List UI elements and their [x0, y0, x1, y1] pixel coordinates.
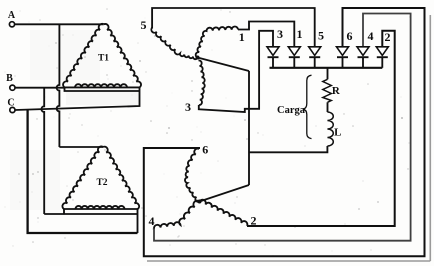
diode D2	[376, 47, 388, 56]
wire neutral N1 diagonal	[198, 58, 250, 72]
wire under T1 base	[65, 87, 140, 91]
wire A drop horizontal	[59, 146, 103, 148]
diode D6	[337, 47, 349, 56]
diode D3	[267, 47, 279, 56]
wire winding1 to diode1	[238, 22, 294, 47]
cathode bus	[270, 67, 383, 69]
inductor L	[327, 112, 333, 146]
wire winding6 loop to diode6	[144, 8, 425, 256]
wire A drop to T2 apex	[57, 24, 60, 147]
svg-text:5: 5	[318, 29, 324, 43]
wire B drop	[41, 88, 44, 214]
terminal B	[10, 85, 15, 90]
winding 4 coil	[154, 201, 199, 229]
wire under T2 base	[63, 209, 65, 214]
svg-text:5: 5	[141, 18, 147, 32]
wire winding5 to diode5	[152, 8, 315, 47]
svg-text:6: 6	[202, 143, 208, 157]
terminal C	[10, 107, 15, 112]
svg-text:R: R	[332, 85, 341, 97]
transformer T1 base winding	[75, 84, 127, 87]
svg-text:L: L	[334, 127, 341, 139]
wire C sloped to T1 right corner	[15, 87, 140, 110]
svg-text:B: B	[6, 73, 13, 84]
winding 1 coil	[196, 27, 238, 58]
transformer T2 right winding	[103, 147, 139, 209]
svg-text:3: 3	[185, 100, 191, 114]
svg-text:1: 1	[297, 27, 303, 41]
wire winding4 loop to diode4	[154, 14, 411, 241]
svg-text:6: 6	[347, 29, 353, 43]
svg-text:2: 2	[385, 30, 391, 44]
transformer T1 right winding	[104, 24, 141, 88]
wire T2 right corner down	[137, 209, 139, 233]
wire R to L	[327, 102, 329, 112]
svg-text:1: 1	[239, 30, 245, 44]
svg-text:Carga: Carga	[277, 105, 306, 116]
node N2 star2 center	[198, 200, 202, 204]
wire A to T1 apex	[15, 23, 104, 25]
svg-text:4: 4	[368, 29, 374, 43]
wire C drop around T2	[28, 110, 138, 233]
svg-text:4: 4	[149, 214, 155, 228]
svg-text:T1: T1	[98, 54, 109, 64]
wire winding3 to diode3	[199, 31, 273, 112]
transformer T2 left winding	[62, 146, 103, 209]
svg-text:2: 2	[251, 214, 257, 228]
winding 5 coil	[151, 28, 197, 60]
winding 3 coil	[199, 60, 205, 105]
transformer T2 base line	[64, 208, 138, 210]
diode D1	[288, 47, 300, 56]
winding 2 coil	[200, 200, 248, 226]
diode D4	[357, 47, 369, 56]
resistor R	[323, 79, 332, 102]
wire winding2 loop to diode2	[247, 31, 395, 226]
transformer T1 base line	[65, 86, 140, 88]
svg-text:3: 3	[277, 27, 283, 41]
transformer T1 left winding	[63, 24, 104, 88]
wire neutral vertical	[248, 71, 250, 185]
diode D5	[309, 47, 321, 56]
svg-text:C: C	[7, 98, 14, 109]
transformer T2 base winding	[76, 206, 125, 209]
svg-text:T2: T2	[96, 178, 107, 188]
wire neutral to N2 diagonal	[200, 185, 250, 202]
winding 6 coil	[185, 149, 200, 202]
wire B to T1 corner	[15, 87, 65, 89]
svg-text:A: A	[8, 10, 16, 21]
node N1 star1 center	[196, 56, 200, 60]
brace carga	[303, 75, 312, 138]
wire bus to load	[327, 68, 329, 80]
terminal A	[9, 22, 14, 27]
wire L to neutral	[249, 146, 327, 152]
